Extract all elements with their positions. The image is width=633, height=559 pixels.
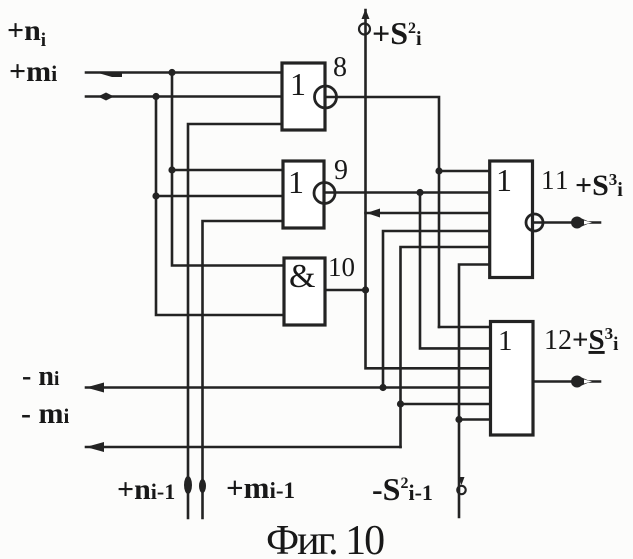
wire +S2 branch to gate 11 input 3 (366, 212, 490, 215)
arrow terminal on +m_i input (98, 93, 114, 101)
wire branch to OR gate 9 input 1 (172, 169, 283, 172)
svg-text:1: 1 (498, 325, 513, 357)
output arrow of gate 12 (571, 376, 592, 388)
or-gate 8 (282, 63, 337, 130)
svg-text:+S2i: +S2i (372, 15, 422, 51)
svg-text:&: & (289, 258, 315, 295)
wire gate 11 output line (533, 221, 601, 224)
arrow blob on +m_i-1 riser (199, 479, 206, 493)
svg-text:+mi: +mi (9, 55, 57, 88)
wire +n_i-1 riser to gate 8 input 3 (188, 124, 282, 518)
wire gate 9 branch down to gate 12 input 2 (420, 193, 491, 349)
and-gate 10 (284, 258, 325, 325)
node -S2 branch (455, 416, 462, 423)
wire gate 8 branch to gate 11 input 1 (439, 170, 490, 173)
output arrow of gate 11 (571, 217, 592, 229)
arrow blob on +n_i-1 riser (184, 476, 192, 494)
svg-text:Фиг. 10: Фиг. 10 (266, 518, 384, 559)
node -n_i branch (379, 384, 386, 391)
terminal circle +S2_i (359, 9, 370, 35)
wire gate 12 output line (533, 380, 600, 383)
wire +S2_i vertical down to gate 12 input 3 (366, 10, 491, 368)
node gate 9 in2 branch (152, 192, 159, 199)
svg-text:-S2i-1: -S2i-1 (372, 471, 433, 507)
svg-text:+S3i: +S3i (575, 169, 623, 202)
wire AND gate 10 output to +S2 node (325, 289, 366, 292)
arrow terminal on +n_i input (100, 74, 122, 78)
wire gate 9 output to gate 11 input 2 (324, 191, 490, 194)
terminal circle -S2_i-1 (457, 477, 465, 494)
wire gate 8 output to corner and down (325, 97, 439, 327)
node AND output to S2 vertical (362, 286, 369, 293)
wire -S2_i-1 riser to gate 11 input 6 (459, 265, 490, 518)
node -m_i branch (397, 400, 404, 407)
wire +n_i input line (86, 71, 282, 74)
wire branch to gate 12 input 6 (459, 418, 491, 421)
svg-text:9: 9 (334, 155, 348, 186)
svg-text:12+S3i: 12+S3i (544, 324, 618, 356)
wire +m_i-1 riser to gate 9 input 3 (203, 221, 284, 518)
wire vertical branch from +n_i line down to AND gate (172, 73, 284, 266)
arrow terminal -m_i (points left) (86, 442, 104, 452)
svg-text:- mi: - mi (21, 397, 69, 430)
node on +m_i line (152, 93, 159, 100)
svg-text:+ni: +ni (7, 14, 46, 51)
svg-text:+ni-1: +ni-1 (117, 473, 175, 506)
or-gate 12 (491, 322, 534, 436)
svg-text:1: 1 (290, 66, 306, 102)
or-gate 11 (490, 161, 543, 278)
wire branch to OR gate 9 input 2 (156, 195, 283, 198)
svg-text:11: 11 (541, 165, 570, 195)
node gate8 chain branch (435, 167, 442, 174)
svg-text:8: 8 (333, 52, 347, 83)
svg-text:- ni: - ni (22, 361, 60, 392)
svg-text:10: 10 (328, 252, 355, 282)
wire -n_i line to gate 12 input 4 (86, 386, 491, 389)
svg-text:+mi-1: +mi-1 (226, 470, 295, 505)
wire -m_i riser with branches to gate 11 input 5 and gate 12 input 5 (401, 247, 490, 447)
node gate9 chain branch (416, 189, 423, 196)
wire gate 8 chain to gate 12 input 1 (439, 326, 491, 329)
wire +m_i input line (86, 95, 282, 98)
wire vertical branch from +m_i line down to AND gate lower input (156, 97, 284, 316)
wire -n_i branch up to gate 11 input 4 (383, 231, 490, 388)
svg-text:1: 1 (288, 164, 304, 200)
wire branch to gate 12 input 5 (401, 403, 491, 406)
svg-text:1: 1 (496, 162, 512, 198)
wire -m_i line turning up at x=400 (86, 446, 401, 449)
arrow terminal -n_i (points left) (86, 383, 104, 393)
arrowhead junction gate 11 input 3 (367, 209, 381, 218)
node gate 9 in1 branch (168, 166, 175, 173)
node on +n_i line (168, 69, 175, 76)
or-gate 9 (283, 161, 335, 228)
